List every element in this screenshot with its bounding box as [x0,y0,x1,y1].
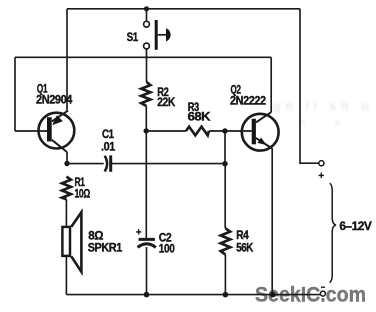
node R2/R3/C2 junction [144,128,149,133]
wire Q2 collector up [270,57,272,112]
svg-text:+: + [318,171,324,182]
wire R4 to bottom rail [224,255,226,295]
wire speaker to bottom rail [65,256,67,295]
node Q1 collector / R1 / C1 [64,161,69,166]
transistor Q1 [39,111,75,152]
wire R1 to speaker [65,199,67,226]
svg-text:n s: n s [300,117,340,129]
wire junction to R3 [146,130,186,132]
brace battery [330,183,336,282]
wire Q1 collector down [66,152,68,164]
wire top rail [67,8,300,10]
wire Q2 emitter down [271,148,273,294]
svg-text:.01: .01 [101,140,116,154]
speaker SPKR1 [62,212,81,272]
label minus battery [321,286,325,288]
svg-text:6–12V: 6–12V [339,219,372,233]
transistor Q2 [242,112,279,150]
wire R3 to base node [209,130,225,132]
wire base node to Q2 [225,130,252,132]
resistor R2 [141,82,150,106]
svg-text:SPKR1: SPKR1 [88,241,123,255]
resistor R1 [62,177,71,200]
terminal battery minus [320,291,325,296]
wire bottom rail [66,294,320,296]
node R4 bottom rail [223,292,229,298]
resistor R3 [186,127,209,136]
wire S1 top lead [146,9,148,21]
wire C2 to bottom rail [146,247,148,295]
svg-text:S1: S1 [127,30,139,44]
capacitor C1 [105,155,111,171]
wire bias line y57 [15,56,271,58]
wire S1 bottom to R2 [146,49,148,82]
wire C1 to junction [111,163,225,165]
node Q2 base junction [222,128,227,133]
svg-text:+: + [136,227,142,238]
terminal battery plus [319,161,324,166]
node C1/R4 junction [222,161,227,166]
wire R4 top [224,164,226,229]
capacitor C2 [138,239,156,247]
svg-text:22K: 22K [157,95,176,109]
switch S1 [144,20,171,50]
svg-text:gn ll sn u: gn ll sn u [273,98,369,113]
svg-text:56K: 56K [236,241,253,255]
svg-text:68K: 68K [188,110,211,124]
wire R2 to junction [145,106,147,131]
svg-text:2N2222: 2N2222 [230,94,266,108]
wire Q1 base [15,130,47,132]
wire Q1 emitter vertical to top rail [66,9,68,111]
svg-text:10Ω: 10Ω [75,186,90,200]
node top rail / S1 junction [144,6,149,11]
wire base node down to C1 node [224,131,226,164]
wire left vertical [14,57,16,131]
wire node to C1 [67,163,104,165]
node Q2 emitter bottom rail [270,292,276,298]
resistor R4 [221,228,231,254]
wire junction to C2 [145,131,147,239]
node C2 bottom rail [144,292,150,298]
wire right rail to battery plus [300,9,319,163]
svg-text:2N2904: 2N2904 [36,92,73,106]
svg-text:100: 100 [159,241,175,255]
